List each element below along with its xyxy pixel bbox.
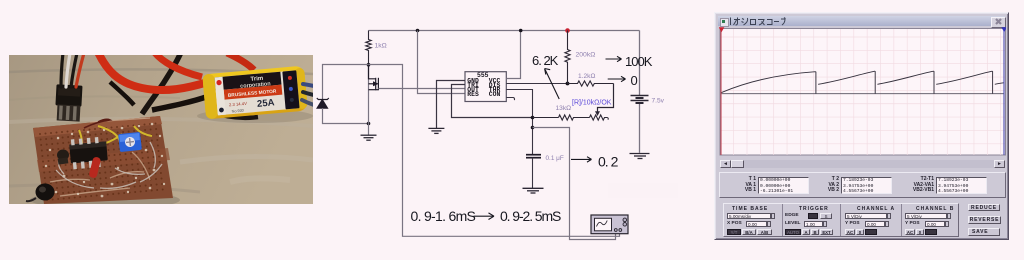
blue cursor 2 — [1003, 29, 1005, 155]
readout box 1 — [758, 177, 809, 194]
node gate junction — [367, 63, 371, 67]
ESC label — [215, 70, 300, 115]
wire zener to source node — [323, 108, 369, 124]
ground under MOSFET source — [361, 135, 377, 140]
channel A sawtooth trace — [721, 71, 1004, 93]
readout labels T2-T1 — [900, 177, 934, 194]
resistor R1 1kΩ — [366, 31, 371, 65]
readout box 2 — [841, 177, 892, 194]
yellow hookup wires on board — [72, 126, 152, 156]
pin stub 555 CON — [506, 98, 514, 101]
yellow ESC body — [202, 66, 308, 120]
screen bezel — [720, 29, 1006, 156]
svg-text:0. 9-2. 5mS: 0. 9-2. 5mS — [500, 208, 561, 224]
CHANNEL B section — [916, 206, 954, 212]
battery V1 7.5v — [631, 96, 649, 104]
red cursor 1 — [720, 29, 722, 155]
perfboard (brown prototyping board) — [33, 116, 173, 204]
node THR/TRI junction — [531, 116, 535, 120]
node top rail junction A — [416, 29, 420, 33]
wire top V+ rail — [369, 30, 640, 32]
oscilloscope window (オシロスコープ) — [714, 12, 1009, 240]
wire 555 GND pin to ground — [437, 81, 466, 129]
annotation long arrow — [474, 213, 495, 220]
svg-text:1.2kΩ: 1.2kΩ — [578, 73, 595, 80]
red component (resistor/LED) on board — [88, 156, 101, 178]
wire probe B from gate node to oscilloscope — [369, 65, 620, 237]
grid — [721, 29, 1005, 155]
faint watermark — [608, 183, 678, 198]
servo cable (black/white/red wires to top edge) — [61, 53, 84, 87]
svg-text:100K: 100K — [625, 54, 653, 69]
8-pin DIP IC (555) on board — [69, 136, 108, 169]
title text オシロスコープ — [730, 17, 786, 26]
resistor R5 10kΩ pot element — [590, 115, 609, 120]
TIME BASE section — [732, 206, 768, 212]
readout box 3 — [936, 177, 987, 194]
black electrolytic capacitor lower-left — [26, 184, 55, 202]
node VCC rail junction — [519, 29, 523, 33]
silver jumper wires on board — [56, 142, 162, 188]
annotation arrow to 100K — [606, 56, 622, 61]
node red V+ junction — [565, 28, 570, 33]
svg-text:7.5v: 7.5v — [652, 98, 665, 105]
readout panel — [719, 172, 1006, 198]
shadow under perfboard — [30, 191, 180, 209]
wire MOSFET drain to 555 OUT pin — [378, 88, 465, 90]
black 3-pin servo connector — [55, 84, 83, 121]
wire battery to ground — [639, 103, 641, 152]
readout labels T2 VA2 VB2 — [812, 177, 839, 194]
node DIS junction — [566, 82, 570, 86]
svg-text:[R]/10kΩ/OK: [R]/10kΩ/OK — [572, 100, 612, 107]
CHANNEL A section — [857, 206, 895, 212]
svg-text:25A: 25A — [257, 97, 275, 109]
control panel — [723, 203, 959, 237]
svg-text:RES: RES — [467, 91, 479, 98]
wooden table background — [9, 55, 313, 204]
wire timing resistor row — [533, 117, 559, 119]
resistor R2 200kΩ (pot) — [565, 31, 570, 84]
SAVE button — [968, 228, 1000, 236]
solder joint speckles — [45, 123, 165, 198]
svg-text:0. 9-1. 6mS: 0. 9-1. 6mS — [411, 208, 476, 224]
node source junction — [367, 122, 371, 126]
waveform screen — [719, 26, 1006, 157]
REDUCE button — [968, 204, 1000, 211]
resistor R3 1.2kΩ — [568, 81, 614, 86]
wire 555 DIS pin — [506, 83, 567, 85]
wire probe A to oscilloscope — [533, 128, 616, 240]
wire right rail to battery — [639, 31, 641, 96]
label left strip with battery marks — [215, 77, 226, 116]
op-amp U1 555 timer box — [465, 72, 506, 102]
wire 555 VCC pin to rail — [506, 31, 520, 79]
wire gate node to zener loop — [323, 65, 369, 100]
perfboard hole grid — [39, 123, 164, 202]
blue trimmer potentiometer on board — [118, 132, 142, 152]
zener diode D1 — [317, 98, 329, 108]
annotation arrow to 0 — [608, 76, 626, 81]
svg-text:0. 2: 0. 2 — [598, 153, 619, 169]
readout labels T1 VA1 VB1 — [728, 177, 756, 194]
wire cap to ground — [532, 158, 534, 188]
wire pot wiper link — [598, 84, 614, 113]
node probe A tap — [531, 126, 535, 130]
horizontal scrollbar — [720, 160, 1005, 168]
svg-text:13kΩ: 13kΩ — [556, 105, 572, 112]
wire source vertical — [368, 65, 370, 135]
blue motor wires exiting right — [302, 84, 314, 105]
capacitor C1 0.1uF — [526, 155, 541, 158]
label right black strip (MOTOR) — [282, 70, 299, 109]
REVERSE button — [968, 216, 1001, 224]
wire rail to 555 RES pin — [418, 31, 466, 94]
svg-text:1kΩ: 1kΩ — [375, 43, 387, 50]
oscilloscope instrument icon XSC1 — [591, 215, 628, 234]
resistor R4 13kΩ — [559, 115, 590, 120]
TRIGGER section — [799, 206, 829, 212]
ground under 555 — [428, 128, 444, 133]
svg-text:0.1 μF: 0.1 μF — [546, 155, 564, 162]
window icon — [720, 18, 729, 27]
thick black ESC power wires — [110, 50, 258, 118]
shadow under ESC — [197, 109, 313, 123]
photo of ESC and perfboard circuit on wooden table — [9, 50, 314, 209]
thin dark red wire from board to connector — [84, 119, 110, 128]
small transistor on board left — [57, 150, 69, 165]
ground under battery — [630, 154, 650, 159]
wire 555 THR pin down to timing node — [506, 90, 532, 155]
wire 555 TRI pin to timing node — [452, 85, 533, 118]
ground under capacitor — [523, 188, 544, 193]
pot wiper arrowhead — [595, 111, 600, 116]
svg-text:200kΩ: 200kΩ — [576, 52, 596, 59]
annotation arrow to 0.2 — [571, 157, 592, 162]
title bar — [718, 16, 1005, 26]
svg-text:6. 2K: 6. 2K — [532, 53, 559, 68]
svg-text:0: 0 — [631, 73, 638, 88]
annotation pointer arrow to 6.2K — [545, 69, 560, 100]
close button — [991, 17, 1006, 28]
transistor Q1 n-channel MOSFET — [369, 65, 379, 91]
channel B flat trace — [721, 93, 1004, 95]
solder glints on perfboard — [50, 118, 150, 196]
thick red ESC power wire arc — [97, 50, 254, 90]
svg-text:CON: CON — [489, 91, 501, 98]
